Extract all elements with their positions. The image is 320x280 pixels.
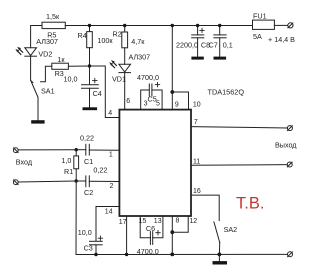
svg-text:8: 8 bbox=[176, 218, 180, 225]
LED VD2 bbox=[25, 48, 37, 56]
resistor R2 bbox=[122, 32, 128, 48]
fuse FU1 bbox=[253, 20, 275, 29]
ground (SA2) bbox=[213, 261, 228, 264]
svg-text:Вход: Вход bbox=[16, 158, 33, 167]
svg-text:13: 13 bbox=[154, 218, 162, 225]
switch SA2 bbox=[214, 222, 220, 243]
terminal output bottom bbox=[287, 162, 292, 167]
capacitor C4 bbox=[89, 66, 91, 84]
svg-text:14: 14 bbox=[105, 209, 113, 216]
wire R4 to node A bbox=[89, 48, 91, 66]
svg-text:5A: 5A bbox=[253, 32, 262, 41]
wire pin 12 to pin 8 bbox=[172, 216, 188, 232]
svg-text:11: 11 bbox=[193, 159, 200, 166]
wire top rail left segment bbox=[31, 26, 42, 48]
resistor R1 bbox=[75, 150, 77, 156]
ground (C4) bbox=[83, 107, 98, 110]
resistor R3 bbox=[52, 63, 69, 69]
svg-text:7: 7 bbox=[194, 119, 198, 126]
terminal output top bbox=[287, 126, 292, 131]
wire pin 14 to C3 bbox=[96, 207, 119, 242]
svg-text:АЛ307: АЛ307 bbox=[36, 37, 58, 46]
terminal input top bbox=[13, 148, 18, 153]
wire pin 7 to output top bbox=[191, 127, 287, 128]
svg-text:0,22: 0,22 bbox=[93, 166, 107, 175]
svg-text:4700,0: 4700,0 bbox=[137, 73, 159, 82]
svg-text:C4: C4 bbox=[93, 89, 102, 98]
svg-text:4: 4 bbox=[108, 110, 112, 117]
svg-text:12: 12 bbox=[189, 218, 197, 225]
wire pin 11 to output bottom bbox=[191, 164, 287, 167]
svg-text:17: 17 bbox=[119, 219, 127, 226]
wire top rail middle bbox=[65, 25, 252, 27]
svg-text:Т.В.: Т.В. bbox=[236, 195, 264, 213]
ground (C8) bbox=[191, 57, 203, 60]
svg-text:10,0: 10,0 bbox=[64, 75, 78, 84]
svg-text:VD1: VD1 bbox=[112, 75, 126, 84]
svg-text:100к: 100к bbox=[97, 36, 113, 45]
capacitor C1 bbox=[76, 149, 86, 151]
wire pin 17 to ground rail bbox=[126, 216, 128, 255]
C5 plus sign bbox=[155, 82, 159, 86]
svg-text:АЛ307: АЛ307 bbox=[129, 53, 151, 62]
node A junction bbox=[88, 64, 91, 67]
resistor R5 bbox=[42, 22, 65, 28]
capacitor C6 with pins 15,13 bbox=[140, 216, 150, 238]
wire pin 8 to ground rail bbox=[171, 216, 173, 254]
svg-text:C1: C1 bbox=[84, 157, 93, 166]
wire node C down to ground rail bbox=[76, 181, 288, 255]
svg-text:FU1: FU1 bbox=[253, 12, 267, 21]
svg-text:SA2: SA2 bbox=[224, 225, 238, 234]
svg-text:C2: C2 bbox=[84, 188, 93, 197]
svg-text:R1: R1 bbox=[64, 167, 73, 176]
capacitor C2 bbox=[76, 180, 86, 182]
wire R3 to node A bbox=[68, 65, 89, 67]
node B junction bbox=[75, 148, 78, 151]
svg-text:C3: C3 bbox=[84, 244, 93, 253]
resistor R4 bbox=[87, 32, 93, 48]
svg-text:4700,0: 4700,0 bbox=[137, 247, 159, 256]
svg-text:1,0: 1,0 bbox=[61, 156, 71, 165]
svg-text:1,5к: 1,5к bbox=[46, 12, 60, 21]
wire VD1 to pin 6 bbox=[124, 73, 126, 109]
wire SA2 to ground bbox=[218, 254, 220, 261]
svg-text:16: 16 bbox=[193, 188, 201, 195]
wire input top to node B bbox=[18, 149, 76, 151]
wire rail to R4 bbox=[89, 26, 91, 32]
C4 plus sign bbox=[93, 78, 97, 82]
wire input bottom to node C bbox=[18, 181, 76, 182]
svg-text:+ 14,4 В: + 14,4 В bbox=[268, 35, 295, 44]
capacitor C8 bbox=[197, 26, 199, 35]
svg-text:TDA1562Q: TDA1562Q bbox=[208, 88, 245, 97]
svg-text:1к: 1к bbox=[57, 55, 65, 64]
svg-text:3: 3 bbox=[144, 101, 148, 108]
terminal +14.4V bbox=[288, 23, 293, 28]
switch SA1 bbox=[31, 80, 33, 82]
ground (C7) bbox=[214, 57, 227, 60]
svg-text:5: 5 bbox=[156, 101, 160, 108]
svg-text:4,7к: 4,7к bbox=[131, 37, 145, 46]
svg-text:VD2: VD2 bbox=[38, 50, 52, 59]
svg-text:0,22: 0,22 bbox=[80, 133, 94, 142]
node C junction bbox=[75, 179, 78, 182]
wire C2 to pin 2 bbox=[89, 180, 118, 182]
svg-text:2: 2 bbox=[110, 183, 114, 190]
svg-text:10: 10 bbox=[193, 101, 201, 108]
C8 plus sign bbox=[200, 28, 204, 32]
wire rail to pins 9,10 bbox=[171, 26, 173, 110]
svg-text:6: 6 bbox=[126, 98, 130, 105]
svg-text:C7: C7 bbox=[209, 41, 218, 50]
svg-text:9: 9 bbox=[175, 101, 179, 108]
wire VD2 cathode to SA1 bbox=[30, 56, 32, 80]
terminal ground right bbox=[288, 252, 293, 257]
wire R3 left contact bbox=[41, 66, 52, 82]
ground (SA1) bbox=[31, 120, 44, 123]
wire fuse to +14.4V terminal bbox=[274, 24, 287, 26]
C3 plus sign bbox=[98, 236, 102, 240]
op-amp U1 TDA1562Q body bbox=[119, 110, 191, 216]
wire rail to R2 bbox=[124, 26, 126, 33]
svg-text:R2: R2 bbox=[113, 29, 122, 38]
svg-text:10,0: 10,0 bbox=[78, 228, 92, 237]
capacitor C5 bbox=[141, 90, 150, 109]
svg-text:1: 1 bbox=[109, 151, 113, 158]
svg-text:2200,0: 2200,0 bbox=[176, 41, 198, 50]
junction rail R4 bbox=[88, 24, 91, 27]
capacitor C3 bbox=[90, 240, 103, 242]
wire R2 to VD1 bbox=[124, 48, 126, 65]
wire pin 16 to SA2 bbox=[191, 195, 219, 220]
svg-text:R4: R4 bbox=[78, 31, 87, 40]
svg-text:R3: R3 bbox=[55, 69, 64, 78]
svg-text:0,1: 0,1 bbox=[223, 41, 233, 50]
LED VD2 emission arrows bbox=[17, 49, 22, 55]
svg-text:15: 15 bbox=[139, 218, 147, 225]
capacitor C7 bbox=[219, 26, 221, 35]
svg-text:Выход: Выход bbox=[275, 141, 297, 150]
C6 plus sign bbox=[156, 231, 160, 235]
terminal input bottom bbox=[13, 180, 18, 185]
LED VD1 emission arrows bbox=[111, 62, 116, 68]
svg-text:C6: C6 bbox=[146, 224, 155, 233]
wire C1 to pin 1 bbox=[89, 149, 118, 151]
LED VD1 bbox=[119, 64, 131, 72]
wire node A to pin 4 bbox=[90, 66, 119, 118]
svg-text:SA1: SA1 bbox=[41, 87, 55, 96]
